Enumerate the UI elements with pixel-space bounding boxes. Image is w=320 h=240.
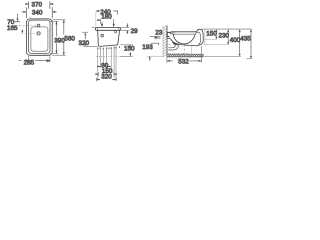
- dim 29 arrows: [126, 23, 128, 34]
- drain hole circle: [101, 34, 104, 37]
- front raised lip profile: [197, 29, 204, 45]
- dim 70 marks: [15, 21, 20, 23]
- tap hole circle 2: [37, 32, 40, 35]
- bidet outer outline (plan): [26, 19, 52, 55]
- svg-text:340: 340: [32, 9, 43, 16]
- dim 240 marks: [96, 11, 118, 15]
- leader dashes to hole 1: [15, 25, 36, 27]
- back fixing block: [167, 32, 171, 36]
- dim 193 marks: [151, 43, 159, 45]
- svg-text:370: 370: [32, 2, 43, 9]
- svg-text:23: 23: [155, 29, 163, 36]
- hidden tap mark under deck: [114, 31, 116, 33]
- trap pipe inner line: [168, 44, 175, 48]
- leader dashes to hole 2: [21, 33, 38, 35]
- svg-text:193: 193: [142, 44, 153, 51]
- svg-text:230: 230: [219, 33, 230, 40]
- svg-text:435: 435: [240, 35, 251, 42]
- dim 370 extension lines: [28, 1, 30, 8]
- wall face line: [166, 26, 168, 58]
- floor slab hatch band: [168, 55, 203, 57]
- svg-text:532: 532: [178, 59, 189, 66]
- top extension line of view 3 dims: [202, 28, 252, 30]
- tap hole tick on deck: [172, 32, 174, 34]
- svg-text:400: 400: [230, 37, 241, 44]
- top rim line: [171, 31, 197, 33]
- dim 560 vertical line + arrows: [63, 20, 65, 55]
- dim 285 line + arrows: [35, 60, 47, 62]
- front lip inner line: [195, 32, 200, 44]
- front edge ext line: [204, 29, 206, 44]
- basin inner line (plan): [31, 27, 48, 51]
- waste drop line: [191, 46, 193, 54]
- dim 150 line + arrows: [95, 72, 117, 76]
- deck rim bar (pill): [95, 28, 121, 31]
- svg-text:320: 320: [79, 40, 90, 47]
- dim 340 extension lines: [25, 7, 27, 18]
- dim 390 vertical line + arrows: [55, 21, 57, 53]
- dim 29 ext lines: [121, 27, 129, 29]
- wall hatch: [163, 26, 167, 57]
- dim 320 left ext lines: [92, 27, 96, 29]
- svg-text:285: 285: [24, 59, 35, 66]
- ref ticks for 150/230: [204, 39, 229, 44]
- bidet rim line (plan): [29, 20, 50, 53]
- svg-text:560: 560: [64, 35, 75, 42]
- dim 340 arrows: [22, 11, 57, 13]
- fixing hole dot: [101, 29, 103, 31]
- svg-text:29: 29: [131, 28, 139, 35]
- tap hole circle 1: [37, 24, 40, 27]
- body outline (front): [98, 30, 120, 46]
- right ext lines top/bottom of view 1: [52, 19, 65, 21]
- floor lines: [167, 53, 203, 55]
- bowl bottom thick shadow: [173, 42, 180, 45]
- bowl section curve: [173, 34, 195, 44]
- rim under line: [173, 33, 195, 35]
- dim 165 arrow: [21, 30, 23, 31]
- svg-text:165: 165: [7, 25, 18, 32]
- down arrow to deck at tap hole: [113, 19, 115, 24]
- dim 80 line + arrows: [97, 65, 111, 69]
- bottom ext lines from body: [98, 47, 116, 81]
- svg-text:180: 180: [101, 14, 112, 21]
- dotted reference line: [97, 55, 127, 57]
- dim 23 marks: [150, 36, 161, 38]
- dim 370 arrows: [25, 3, 53, 5]
- dim 285 ext lines: [28, 56, 30, 63]
- dim 532 line + arrows: [167, 60, 202, 62]
- svg-text:150: 150: [124, 46, 135, 53]
- deck end ticks: [97, 28, 119, 30]
- up arrows row under body: [97, 45, 120, 49]
- dim 180 marks: [100, 19, 102, 24]
- underside profile: [167, 38, 197, 46]
- down arrow to deck at drain hole: [101, 22, 103, 24]
- trap dashed box: [168, 45, 188, 55]
- svg-text:320: 320: [101, 74, 112, 81]
- dim 320 line + arrows: [97, 78, 117, 81]
- dim 532 ext lines: [167, 47, 202, 63]
- dim 320 vertical + arrows: [84, 36, 86, 40]
- trap pipe outer line: [168, 44, 178, 50]
